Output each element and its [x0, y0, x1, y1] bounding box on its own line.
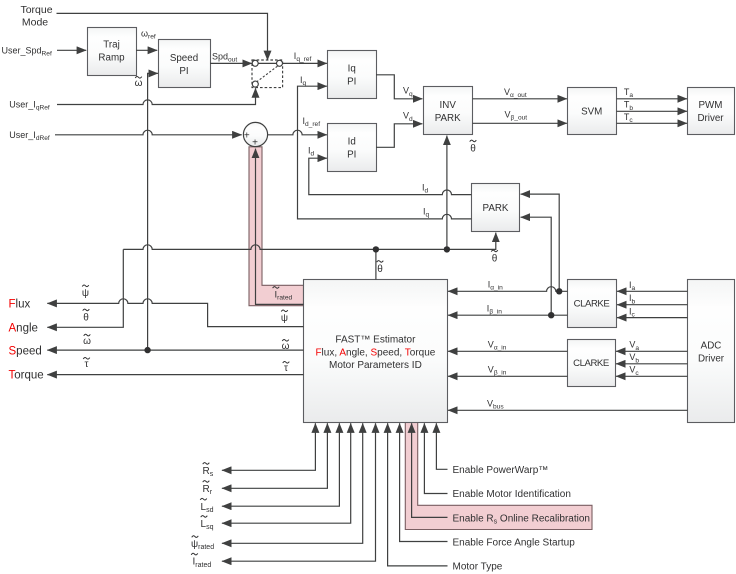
wire Tb SVM to PWM Driver — [617, 110, 688, 112]
wire Flux output — [47, 299, 303, 327]
wire Va_out INV PARK to SVM — [473, 98, 567, 100]
wire User_IqRef to switch — [57, 88, 256, 104]
wire w_ref Traj Ramp to Speed PI — [136, 49, 157, 51]
wire Vb_out INV PARK to SVM — [473, 122, 567, 124]
wire Rs parameter output — [222, 423, 316, 470]
block Iq PI — [328, 51, 377, 99]
wire Angle output — [47, 249, 123, 327]
wire Ialpha to PARK — [521, 194, 560, 291]
svg-text:τ: τ — [284, 363, 288, 374]
wire Ia ADC to CLARKE — [617, 290, 688, 292]
wire Lsd parameter output — [222, 423, 340, 506]
svg-text:+: + — [252, 138, 258, 149]
wire Enable Force Angle Startup — [400, 423, 448, 541]
block Speed PI — [159, 40, 211, 88]
svg-text:Angle: Angle — [9, 323, 38, 335]
wire theta bus to PARK — [123, 233, 496, 250]
svg-text:ψ: ψ — [281, 313, 288, 324]
svg-text:PI: PI — [347, 150, 356, 161]
svg-text:PARK: PARK — [483, 203, 509, 214]
wire User_SpdRef to Traj Ramp — [57, 49, 86, 51]
wire Motor Type — [388, 423, 448, 566]
switch: torque mode selector — [252, 60, 283, 88]
svg-text:PI: PI — [179, 66, 188, 77]
block SVM — [568, 88, 617, 135]
svg-text:Speed: Speed — [170, 53, 198, 64]
svg-text:Driver: Driver — [697, 113, 724, 124]
junction theta to INV PARK — [444, 246, 450, 252]
wire I_rated parameter output — [222, 423, 376, 561]
svg-text:Flux: Flux — [9, 298, 31, 310]
wire Ta SVM to PWM Driver — [617, 98, 688, 100]
block PWM Driver — [688, 88, 735, 135]
svg-text:Flux, Angle, Speed, Torque: Flux, Angle, Speed, Torque — [315, 347, 435, 358]
wire theta to INV PARK — [446, 136, 448, 250]
wire Enable Rs Online Recalibration — [412, 423, 448, 517]
svg-text:Id: Id — [348, 137, 356, 148]
svg-text:Ramp: Ramp — [98, 53, 125, 64]
block FAST Estimator — [304, 280, 448, 423]
highlight: Enable Rs Online Recalibration (pink) — [405, 423, 592, 530]
wire Id_ref summing junction to Id PI — [267, 130, 327, 135]
block ADC Driver — [688, 280, 735, 423]
junction Ibeta — [548, 312, 554, 318]
wire speed feedback to Speed PI — [148, 73, 158, 350]
svg-text:FAST™ Estimator: FAST™ Estimator — [335, 335, 416, 346]
svg-text:Motor Type: Motor Type — [453, 562, 503, 573]
svg-text:Torque: Torque — [9, 370, 44, 382]
junction Ialpha — [556, 288, 562, 294]
svg-text:θ: θ — [377, 264, 383, 275]
svg-text:SVM: SVM — [581, 107, 602, 118]
block Traj Ramp — [88, 28, 137, 76]
wire Vbeta_in CLARKE to FAST — [448, 375, 568, 377]
wire Iq_ref switch to Iq PI — [283, 62, 327, 64]
svg-text:Enable Rs Online Recalibration: Enable Rs Online Recalibration — [453, 514, 590, 526]
svg-text:Enable Motor Identification: Enable Motor Identification — [453, 489, 571, 500]
svg-text:Driver: Driver — [698, 354, 725, 365]
svg-text:τ: τ — [85, 359, 89, 370]
svg-text:Motor Parameters ID: Motor Parameters ID — [329, 360, 422, 371]
wire Lsq parameter output — [222, 423, 351, 523]
wire theta from FAST Estimator — [375, 249, 377, 279]
svg-text:CLARKE: CLARKE — [573, 358, 609, 369]
svg-text:PI: PI — [347, 77, 356, 88]
wire Ibeta to PARK — [521, 217, 552, 315]
svg-text:ω: ω — [135, 78, 143, 89]
svg-text:+: + — [244, 130, 250, 141]
wire Ibeta_in CLARKE to FAST — [448, 314, 568, 316]
svg-text:Enable PowerWarp™: Enable PowerWarp™ — [453, 465, 549, 476]
wire Ic ADC to CLARKE — [617, 317, 688, 319]
wire Va ADC to CLARKE — [616, 350, 688, 352]
svg-text:PWM: PWM — [699, 100, 723, 111]
wire Ialpha_in CLARKE to FAST — [448, 287, 568, 292]
svg-text:Iq: Iq — [348, 64, 356, 75]
wire Ib ADC to CLARKE — [617, 304, 688, 306]
wire Irated FAST to summing junction — [256, 149, 304, 305]
wire Psi_rated parameter output — [222, 423, 363, 543]
svg-text:Mode: Mode — [22, 17, 48, 29]
wire Id PARK to Id PI — [309, 158, 472, 194]
wire Tc SVM to PWM Driver — [617, 122, 688, 124]
wire Enable PowerWarp — [436, 423, 447, 469]
svg-text:ω: ω — [282, 341, 290, 352]
wire Rr parameter output — [222, 423, 328, 488]
wire Vq Iq PI to INV PARK — [376, 75, 422, 99]
svg-text:θ: θ — [492, 254, 498, 265]
svg-text:Enable Force Angle Startup: Enable Force Angle Startup — [453, 538, 576, 549]
svg-text:ω: ω — [83, 336, 91, 347]
svg-text:θ: θ — [470, 144, 476, 155]
summing junction — [243, 122, 267, 148]
svg-text:CLARKE: CLARKE — [574, 299, 610, 310]
wire Enable Motor Identification — [424, 423, 447, 493]
wire Torque output — [47, 374, 303, 376]
wire Iq PARK to Iq PI — [298, 86, 472, 219]
wire Vb ADC to CLARKE — [616, 363, 688, 365]
svg-text:Speed: Speed — [9, 345, 42, 357]
block INV PARK — [424, 87, 473, 135]
wire Vbus ADC to FAST — [448, 409, 688, 411]
wire Speed output — [47, 349, 303, 351]
block PARK — [472, 184, 520, 232]
block CLARKE voltages — [568, 340, 616, 387]
svg-text:Torque: Torque — [20, 4, 52, 16]
junction theta from FAST — [373, 246, 379, 252]
svg-text:ADC: ADC — [701, 341, 722, 352]
wire Vc ADC to CLARKE — [616, 375, 688, 377]
svg-text:PARK: PARK — [435, 113, 461, 124]
svg-text:Traj: Traj — [103, 40, 120, 51]
svg-text:θ: θ — [83, 313, 89, 324]
wire Spd_out to switch — [210, 62, 252, 64]
svg-text:ψ: ψ — [82, 288, 89, 299]
junction speed feedback — [144, 347, 150, 353]
block CLARKE currents — [568, 280, 617, 328]
highlight: Irated feedback path (pink) — [249, 147, 304, 306]
wire Torque Mode to switch — [57, 13, 268, 60]
svg-text:INV: INV — [440, 100, 457, 111]
wire Vd Id PI to INV PARK — [376, 124, 422, 148]
wire Valpha_in CLARKE to FAST — [448, 350, 568, 352]
block Id PI — [328, 124, 377, 172]
wire User_IdRef to summing junction — [55, 130, 242, 135]
